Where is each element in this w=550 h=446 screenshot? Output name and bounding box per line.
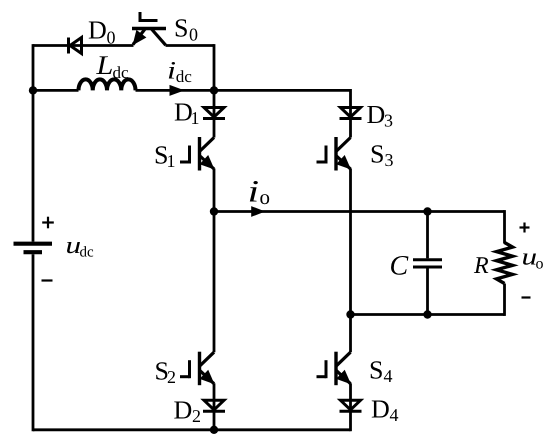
label C: [391, 256, 408, 275]
label i_dc: [169, 62, 175, 79]
diode D2: [204, 400, 224, 410]
label udc: [67, 242, 80, 253]
wire bottom from left rail to right leg: [33, 428, 351, 431]
current arrow i_o: [251, 206, 265, 217]
wire capacitor bottom lead: [426, 268, 429, 314]
wire right leg corner down to S3 (through D3): [349, 89, 352, 138]
current arrow i_dc: [170, 85, 185, 96]
label D1: [175, 103, 192, 120]
wire left rail upper (top corner to battery +): [32, 44, 35, 242]
label S4: [371, 361, 382, 378]
node A (left-leg midpoint): [210, 207, 218, 215]
wire left leg: S2 emitter to bottom wire (through D2): [213, 383, 216, 430]
wire capacitor top lead: [426, 212, 429, 259]
label S3: [372, 145, 383, 162]
wire dc-link from left rail to inductor: [33, 89, 79, 92]
diode D1: [204, 108, 224, 118]
node junction left-rail / dc-link: [29, 86, 37, 94]
wire dc-link from inductor to node (i_dc arrow on it): [136, 89, 215, 92]
diode D0: [67, 38, 70, 54]
label S0: [176, 19, 187, 36]
label D4: [372, 400, 389, 417]
wire bottom right leg up to S4 emitter (through D4): [349, 383, 352, 431]
transistor S2: [198, 352, 201, 386]
capacitor C: [413, 258, 442, 261]
battery - sign: [42, 279, 53, 281]
node junction right leg / output bottom wire: [346, 310, 354, 318]
diode D4: [341, 400, 361, 410]
transistor S3: [334, 137, 337, 171]
wire resistor top lead: [503, 210, 506, 243]
wire output top: node A to resistor corner (i_o arrow on it): [214, 210, 505, 213]
label uo: [523, 253, 536, 264]
label R: [474, 257, 488, 273]
wire left leg: S1 emitter to S2 collector (through node A): [213, 169, 216, 353]
wire left leg: node to S1 collector (through D1): [213, 90, 216, 137]
battery (dc source) plates: [14, 242, 53, 246]
output - sign: [522, 296, 531, 298]
node junction left leg / bottom wire: [210, 426, 218, 434]
transistor S0: [132, 27, 166, 30]
output + sign: [520, 226, 530, 228]
diode D3: [341, 108, 361, 118]
battery + sign: [42, 221, 54, 223]
inductor Ldc: [79, 79, 136, 90]
label S1: [156, 146, 167, 163]
label D3: [367, 106, 384, 123]
wire output bottom: resistor to right-leg midpoint: [351, 313, 505, 316]
label S2: [156, 362, 167, 379]
wire left rail lower (battery - to bottom corner): [32, 254, 35, 431]
wire top-left from left rail to S0 emitter (through D0): [33, 44, 134, 47]
wire bypass right corner down to dc-link node: [213, 44, 216, 90]
node junction capacitor top: [423, 207, 431, 215]
resistor R: [497, 243, 513, 284]
wire right leg: S3 emitter to S4 collector (crosses output wire): [349, 169, 352, 353]
node junction dc-link / left leg: [210, 86, 218, 94]
wire dc-link node to right leg top corner: [214, 89, 351, 92]
wire from S0 collector to right corner: [166, 44, 215, 47]
wire resistor bottom lead: [503, 284, 506, 316]
label i_o: [250, 181, 258, 202]
node junction capacitor bottom: [423, 310, 431, 318]
transistor S4: [334, 352, 337, 386]
transistor S1: [198, 137, 201, 171]
label Ldc: [96, 56, 112, 74]
label D0: [89, 21, 106, 38]
label D2: [174, 401, 191, 418]
